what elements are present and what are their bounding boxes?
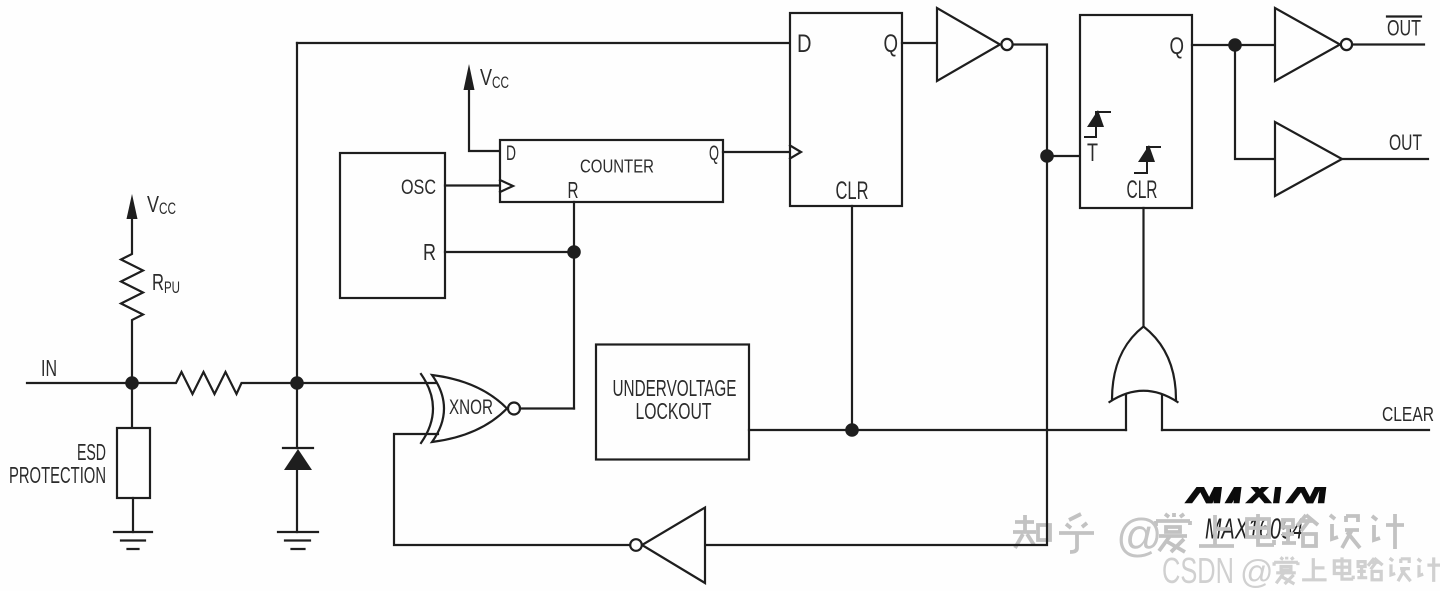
svg-text:OUT: OUT bbox=[1387, 16, 1421, 41]
svg-text:CC: CC bbox=[492, 73, 509, 92]
svg-text:CLEAR: CLEAR bbox=[1382, 404, 1434, 426]
svg-text:T: T bbox=[1087, 139, 1098, 167]
svg-text:CSDN: CSDN bbox=[1162, 550, 1234, 591]
svg-text:R: R bbox=[152, 269, 164, 295]
svg-text:D: D bbox=[797, 30, 812, 58]
svg-text:CC: CC bbox=[159, 199, 176, 218]
svg-text:V: V bbox=[480, 64, 493, 90]
svg-text:Q: Q bbox=[884, 30, 899, 58]
svg-text:R: R bbox=[423, 239, 436, 265]
svg-text:PU: PU bbox=[164, 278, 180, 297]
svg-text:OSC: OSC bbox=[401, 175, 436, 199]
svg-text:OUT: OUT bbox=[1389, 130, 1422, 155]
svg-text:@: @ bbox=[1240, 553, 1274, 590]
svg-text:IN: IN bbox=[41, 355, 57, 381]
svg-text:D: D bbox=[506, 141, 516, 165]
svg-text:CLR: CLR bbox=[1127, 176, 1158, 204]
svg-text:Q: Q bbox=[709, 141, 719, 165]
svg-text:XNOR: XNOR bbox=[449, 395, 493, 419]
svg-text:COUNTER: COUNTER bbox=[580, 156, 654, 177]
svg-text:LOCKOUT: LOCKOUT bbox=[636, 398, 712, 424]
svg-text:R: R bbox=[568, 177, 579, 203]
svg-text:V: V bbox=[147, 191, 160, 217]
svg-text:CLR: CLR bbox=[836, 177, 869, 205]
svg-text:PROTECTION: PROTECTION bbox=[9, 462, 106, 488]
svg-text:@: @ bbox=[1116, 509, 1163, 561]
svg-text:Q: Q bbox=[1170, 33, 1185, 60]
